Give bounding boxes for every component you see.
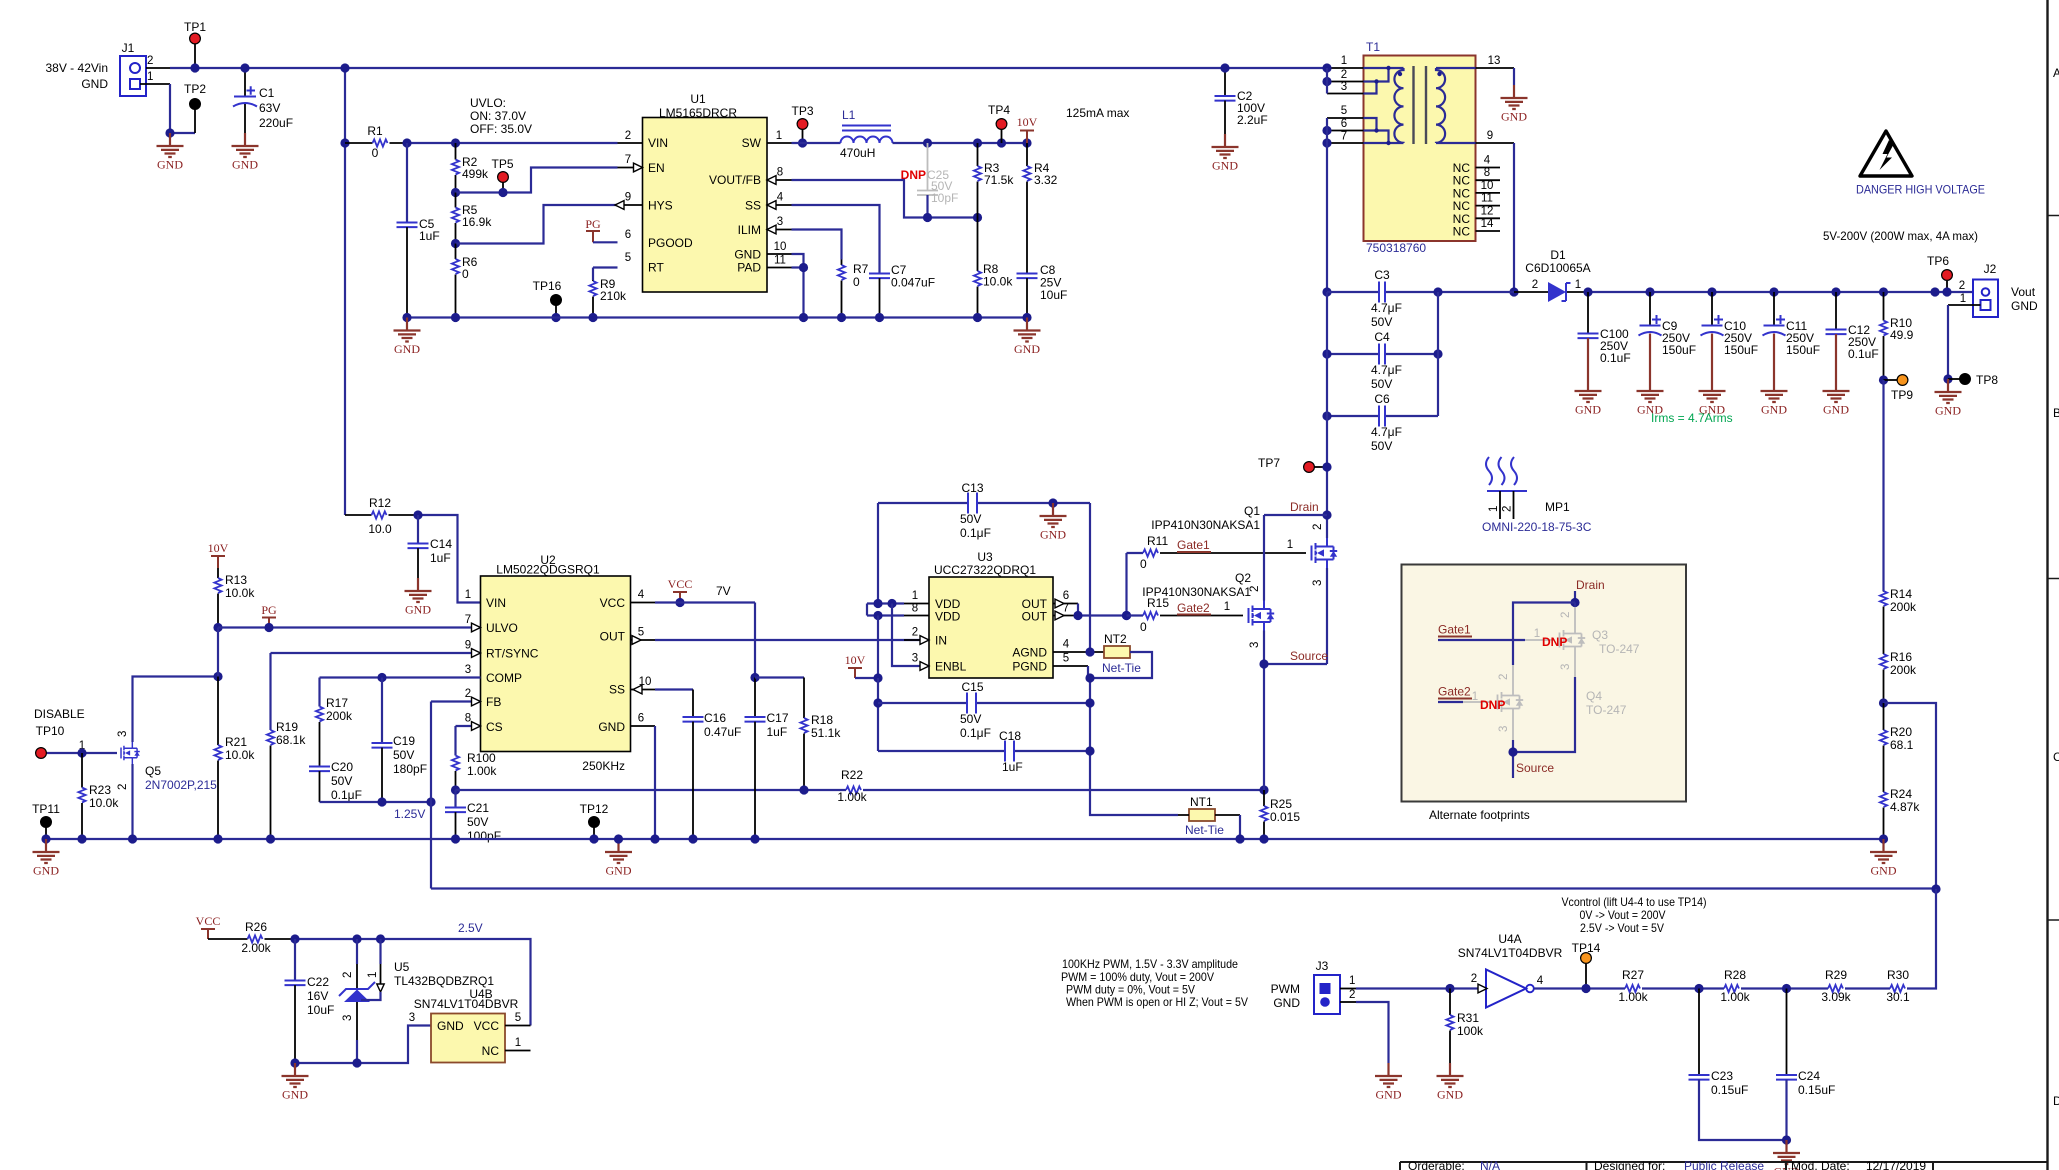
wire ENBL tie <box>892 604 929 667</box>
wire VDD left column <box>877 503 879 604</box>
resistor R9 <box>589 277 627 318</box>
svg-text:10.0k: 10.0k <box>89 796 119 810</box>
capacitor C20 <box>309 760 362 802</box>
svg-text:T1: T1 <box>1366 40 1380 54</box>
resistor R18 <box>755 678 841 791</box>
wire J2 pin1 gnd <box>1948 304 1981 306</box>
resistor R15 <box>1122 596 1243 634</box>
svg-text:R14: R14 <box>1890 587 1912 601</box>
svg-text:0.1μF: 0.1μF <box>960 726 991 740</box>
wire FB row <box>431 700 481 702</box>
svg-text:12: 12 <box>1481 205 1494 217</box>
svg-text:220uF: 220uF <box>259 116 293 130</box>
wire J1 pin2 to rail <box>146 67 170 69</box>
wire Q5 source <box>131 764 133 839</box>
ground C9 <box>1637 378 1664 417</box>
wire ULVO row <box>218 626 481 628</box>
wire FB sense to right column <box>1884 703 1937 889</box>
svg-text:TP10: TP10 <box>36 724 65 738</box>
svg-text:1: 1 <box>465 589 471 601</box>
svg-text:10V: 10V <box>845 653 866 667</box>
svg-text:2: 2 <box>1312 524 1324 530</box>
svg-text:0.1uF: 0.1uF <box>1848 347 1879 361</box>
wire 2.5V rail <box>295 939 531 1026</box>
svg-text:RT/SYNC: RT/SYNC <box>486 647 539 661</box>
svg-text:0: 0 <box>462 267 469 281</box>
svg-text:Irms = 4.7Arms: Irms = 4.7Arms <box>1651 411 1733 425</box>
svg-text:6: 6 <box>625 229 631 241</box>
svg-text:8: 8 <box>1484 167 1490 179</box>
transistor Q2 <box>1249 586 1275 648</box>
net-tie NT1 <box>1178 795 1245 844</box>
svg-text:1.00k: 1.00k <box>467 764 497 778</box>
svg-text:2: 2 <box>342 972 354 978</box>
svg-text:0.1uF: 0.1uF <box>1600 351 1631 365</box>
testpoint TP9 <box>1879 375 1913 402</box>
power port VCC at U2 <box>668 577 693 607</box>
svg-text:11: 11 <box>774 255 786 267</box>
svg-text:Drain: Drain <box>1290 500 1319 514</box>
ground C11 <box>1761 378 1788 417</box>
inductor L1 <box>840 108 893 160</box>
svg-text:GND: GND <box>1273 996 1300 1010</box>
node Drain alt <box>1570 578 1604 607</box>
node R24 gnd junction <box>1879 834 1888 843</box>
wire CS sense row <box>456 789 847 791</box>
node ULVO junction <box>213 623 222 632</box>
svg-text:150uF: 150uF <box>1724 343 1758 357</box>
node FB divider junction <box>1879 698 1888 707</box>
title block <box>1400 1159 2048 1170</box>
wire SS net <box>792 205 880 274</box>
svg-text:0: 0 <box>372 146 379 160</box>
svg-text:L1: L1 <box>842 108 856 122</box>
T1 primary internal wiring <box>1364 66 1404 94</box>
wire Q1 source / source row <box>1264 568 1327 664</box>
svg-text:TP12: TP12 <box>580 802 609 816</box>
svg-text:U3: U3 <box>977 550 993 564</box>
resistor R2 <box>452 143 489 193</box>
wire VDD tie <box>867 604 904 616</box>
ground C14 <box>405 578 432 617</box>
svg-text:50V: 50V <box>1371 377 1392 391</box>
svg-text:10uF: 10uF <box>1040 288 1067 302</box>
svg-text:0: 0 <box>1140 557 1147 571</box>
capacitor C11 <box>1763 287 1821 378</box>
svg-text:2.00k: 2.00k <box>241 941 271 955</box>
svg-text:2: 2 <box>1349 989 1355 1001</box>
svg-text:2.2uF: 2.2uF <box>1237 113 1268 127</box>
resistor R20 <box>1880 703 1914 792</box>
svg-text:OUT: OUT <box>600 630 626 644</box>
svg-text:ULVO: ULVO <box>486 621 518 635</box>
resistor R6 <box>452 244 478 318</box>
svg-text:5V-200V (200W max, 4A max): 5V-200V (200W max, 4A max) <box>1823 229 1978 243</box>
pin U2-6 GND <box>631 725 656 727</box>
svg-text:1.00k: 1.00k <box>1618 990 1648 1004</box>
ground R31 <box>1437 1063 1464 1102</box>
svg-text:IPP410N30NAKSA1: IPP410N30NAKSA1 <box>1142 585 1251 599</box>
svg-text:4.7μF: 4.7μF <box>1371 425 1402 439</box>
svg-text:Q4: Q4 <box>1586 689 1602 703</box>
ground J3 <box>1375 1063 1402 1102</box>
svg-text:Q5: Q5 <box>145 764 161 778</box>
svg-text:0.047uF: 0.047uF <box>891 276 935 290</box>
ground C22 <box>282 1063 309 1102</box>
svg-text:Designed for:: Designed for: <box>1594 1159 1665 1170</box>
svg-text:0.47uF: 0.47uF <box>704 725 741 739</box>
svg-text:DANGER HIGH VOLTAGE: DANGER HIGH VOLTAGE <box>1856 183 1985 197</box>
capacitor C6 <box>1371 392 1402 453</box>
svg-text:R18: R18 <box>811 713 833 727</box>
svg-text:38V - 42Vin: 38V - 42Vin <box>46 61 109 75</box>
svg-text:Gate2: Gate2 <box>1438 685 1471 699</box>
node vertical x345 rail to R12 <box>344 68 346 515</box>
svg-text:Public Release: Public Release <box>1684 1159 1764 1170</box>
svg-text:50V: 50V <box>393 748 414 762</box>
wire Q2 drain <box>1263 515 1265 601</box>
ground bus mid <box>605 839 632 878</box>
resistor R24 <box>1880 787 1920 839</box>
svg-text:RT: RT <box>648 261 664 275</box>
transistor Q3 DNP <box>1560 607 1640 670</box>
svg-text:1: 1 <box>1224 601 1230 613</box>
svg-text:Source: Source <box>1290 649 1328 663</box>
svg-text:C1: C1 <box>259 86 275 100</box>
svg-text:U4A: U4A <box>1498 932 1521 946</box>
svg-text:180pF: 180pF <box>393 762 427 776</box>
danger triangle <box>1856 131 1985 197</box>
svg-text:TL432BQDBZRQ1: TL432BQDBZRQ1 <box>394 974 494 988</box>
svg-text:R12: R12 <box>369 496 391 510</box>
resistor R29 <box>1821 968 1890 1004</box>
svg-text:100k: 100k <box>1457 1024 1484 1038</box>
ground J2 <box>1935 379 1962 418</box>
svg-text:200k: 200k <box>1890 663 1917 677</box>
svg-text:C14: C14 <box>430 537 452 551</box>
resistor R4 <box>1023 143 1057 274</box>
svg-text:R28: R28 <box>1724 968 1746 982</box>
svg-text:VCC: VCC <box>600 596 626 610</box>
svg-text:C: C <box>2053 750 2059 764</box>
svg-text:100KHz PWM, 1.5V - 3.3V amplit: 100KHz PWM, 1.5V - 3.3V amplitude <box>1062 957 1238 971</box>
svg-text:ON: 37.0V: ON: 37.0V <box>470 109 526 123</box>
pin U3-4 AGND <box>1053 652 1104 666</box>
svg-text:MP1: MP1 <box>1545 500 1570 514</box>
svg-text:C20: C20 <box>331 760 353 774</box>
net-tie NT2 <box>1102 632 1141 675</box>
svg-text:51.1k: 51.1k <box>811 726 841 740</box>
svg-text:R21: R21 <box>225 735 247 749</box>
svg-text:4: 4 <box>1537 975 1544 987</box>
resistor R7 <box>838 260 869 318</box>
svg-text:50V: 50V <box>960 712 981 726</box>
ground C100 <box>1575 378 1602 417</box>
svg-text:OFF: 35.0V: OFF: 35.0V <box>470 122 532 136</box>
svg-text:VIN: VIN <box>486 596 506 610</box>
svg-text:6: 6 <box>1341 118 1347 130</box>
testpoint TP2 <box>184 82 206 133</box>
svg-text:C22: C22 <box>307 975 329 989</box>
resistor R10 <box>1879 287 1914 380</box>
wire primary return column <box>1326 143 1328 292</box>
resistor R5 <box>452 193 492 244</box>
wire output rail <box>1588 291 1973 293</box>
svg-text:J2: J2 <box>1984 262 1997 276</box>
svg-text:SS: SS <box>609 683 625 697</box>
svg-text:C19: C19 <box>393 734 415 748</box>
pin U3-6 OUT <box>1053 603 1078 605</box>
svg-text:3: 3 <box>1498 726 1510 732</box>
svg-text:R24: R24 <box>1890 787 1912 801</box>
testpoint TP1 <box>184 20 206 73</box>
node C23 C24 gnd <box>1782 1135 1791 1144</box>
shunt reference U5 TL432 <box>339 939 494 1063</box>
svg-text:SN74LV1T04DBVR: SN74LV1T04DBVR <box>1458 946 1563 960</box>
wire U5 bottom rail <box>295 1026 431 1064</box>
svg-text:C24: C24 <box>1798 1069 1820 1083</box>
capacitor C14 <box>408 515 453 578</box>
power port VCC at R26 <box>196 914 221 939</box>
svg-text:2: 2 <box>1532 279 1538 291</box>
capacitor C2 <box>1215 63 1268 134</box>
wire Q4 source <box>1512 717 1514 740</box>
wire C6 row <box>1327 292 1438 416</box>
resistor R3 <box>974 143 1014 218</box>
wire Q1 drain <box>1326 515 1328 538</box>
svg-text:8: 8 <box>912 603 918 615</box>
wire GND PAD tie <box>792 254 804 318</box>
svg-text:C15: C15 <box>961 680 983 694</box>
resistor R26 <box>208 920 295 955</box>
svg-text:ILIM: ILIM <box>738 223 761 237</box>
svg-text:OMNI-220-18-75-3C: OMNI-220-18-75-3C <box>1482 520 1592 534</box>
svg-text:VIN: VIN <box>648 136 668 150</box>
svg-text:7: 7 <box>1063 603 1069 615</box>
svg-text:U5: U5 <box>394 960 410 974</box>
svg-text:N/A: N/A <box>1480 1159 1500 1170</box>
svg-text:NT1: NT1 <box>1190 795 1213 809</box>
svg-text:Alternate footprints: Alternate footprints <box>1429 808 1530 822</box>
svg-text:D: D <box>2053 1094 2059 1108</box>
svg-text:14: 14 <box>1481 218 1494 230</box>
wire SW out rail <box>893 142 1028 144</box>
svg-text:Gate1: Gate1 <box>1438 623 1471 637</box>
capacitor C21 <box>445 790 501 843</box>
svg-text:750318760: 750318760 <box>1366 241 1426 255</box>
svg-text:TO-247: TO-247 <box>1599 642 1640 656</box>
T1 secondary-low internal wiring <box>1364 118 1404 145</box>
testpoint TP7 <box>1258 456 1332 472</box>
node CS filter junction <box>451 785 460 794</box>
svg-text:2: 2 <box>1502 506 1514 512</box>
resistor R8 <box>974 218 1013 318</box>
pin U1-1 SW <box>767 142 792 144</box>
svg-text:C17: C17 <box>767 711 789 725</box>
svg-text:63V: 63V <box>259 101 280 115</box>
ground U1 bus <box>1014 318 1041 357</box>
capacitor C5 <box>397 143 440 318</box>
svg-text:4: 4 <box>1063 639 1070 651</box>
svg-text:When PWM is open or HI Z; Vout: When PWM is open or HI Z; Vout = 5V <box>1066 995 1248 1009</box>
svg-text:3: 3 <box>117 731 129 737</box>
svg-text:1: 1 <box>1287 539 1293 551</box>
svg-text:Q2: Q2 <box>1235 571 1251 585</box>
svg-text:B: B <box>2053 406 2059 420</box>
wire drain row <box>1264 514 1327 516</box>
svg-text:PAD: PAD <box>737 261 761 275</box>
svg-text:Vcontrol (lift U4-4 to use TP1: Vcontrol (lift U4-4 to use TP14) <box>1562 895 1707 909</box>
border right edge <box>2048 0 2059 1170</box>
junction pin1/TP2 <box>165 128 174 137</box>
resistor R13 <box>214 568 255 628</box>
svg-text:TP5: TP5 <box>491 157 513 171</box>
svg-text:C4: C4 <box>1374 330 1390 344</box>
svg-text:J3: J3 <box>1316 959 1329 973</box>
wire VDD rail C13 <box>878 502 1090 504</box>
ground R24 <box>1870 839 1897 878</box>
resistor R1 <box>345 124 407 160</box>
svg-text:R20: R20 <box>1890 725 1912 739</box>
svg-text:PG: PG <box>261 603 277 617</box>
testpoint TP8 <box>1948 373 1998 387</box>
wire Q2 source <box>1263 631 1265 791</box>
svg-text:3: 3 <box>912 653 918 665</box>
svg-text:4: 4 <box>777 192 784 204</box>
svg-text:10uF: 10uF <box>307 1003 334 1017</box>
transformer T1 <box>1364 40 1476 255</box>
svg-text:8: 8 <box>465 713 471 725</box>
testpoint TP6 <box>1927 254 1952 297</box>
capacitor C7 <box>869 263 935 318</box>
IC U1 LM5165DRCR <box>643 92 768 292</box>
svg-text:3.32: 3.32 <box>1034 173 1058 187</box>
svg-text:10.0: 10.0 <box>368 522 392 536</box>
svg-text:3: 3 <box>465 664 471 676</box>
ground C12 <box>1823 378 1850 417</box>
svg-text:7: 7 <box>465 614 471 626</box>
svg-text:R19: R19 <box>276 720 298 734</box>
wire VCC to C17 <box>754 603 756 678</box>
svg-text:8: 8 <box>777 167 783 179</box>
resistor R27 <box>1618 968 1724 1004</box>
text Q1 labels <box>1151 504 1260 532</box>
capacitor C23 <box>1689 989 1787 1141</box>
ground left bus <box>394 318 421 357</box>
testpoint TP4 <box>988 103 1010 143</box>
ground C1 <box>232 133 259 172</box>
resistor R14 <box>1880 587 1917 654</box>
svg-text:3: 3 <box>409 1012 415 1024</box>
pin U1-4 SS <box>767 204 792 206</box>
wire inverter out <box>1534 987 1625 989</box>
svg-text:NC: NC <box>1453 225 1471 239</box>
svg-text:210k: 210k <box>600 289 627 303</box>
testpoint TP3 <box>791 104 813 148</box>
svg-text:NC: NC <box>1453 199 1471 213</box>
svg-text:C23: C23 <box>1711 1069 1733 1083</box>
svg-text:1: 1 <box>147 71 153 83</box>
pin U1-7 EN <box>618 167 643 169</box>
svg-text:R17: R17 <box>326 696 348 710</box>
svg-text:R100: R100 <box>467 751 496 765</box>
wire PGND net <box>1088 652 1152 678</box>
wire C4 row <box>1327 353 1438 355</box>
svg-text:68.1: 68.1 <box>1890 738 1914 752</box>
svg-text:1.00k: 1.00k <box>1720 990 1750 1004</box>
transistor Q4 DNP <box>1498 665 1627 732</box>
wire COMP row <box>320 676 481 678</box>
ground T1 pin13 <box>1513 68 1515 85</box>
svg-text:R13: R13 <box>225 573 247 587</box>
svg-text:J1: J1 <box>122 41 135 55</box>
pin U1-3 ILIM <box>767 229 792 231</box>
svg-text:10: 10 <box>1481 180 1494 192</box>
svg-text:PGND: PGND <box>1012 660 1047 674</box>
svg-text:R22: R22 <box>841 768 863 782</box>
svg-text:C6D10065A: C6D10065A <box>1525 261 1590 275</box>
svg-text:13: 13 <box>1488 55 1501 67</box>
svg-text:NC: NC <box>1453 174 1471 188</box>
svg-text:R1: R1 <box>367 124 383 138</box>
node R2/R5 junction <box>451 188 460 197</box>
wire snubber row C3 <box>1327 291 1514 293</box>
pin U2-10 SS <box>631 689 656 691</box>
svg-text:ENBL: ENBL <box>935 660 967 674</box>
power port PG at U2 <box>261 603 277 632</box>
connector J2 <box>1959 262 2038 317</box>
pin U2-5 OUT <box>631 639 656 641</box>
svg-text:5: 5 <box>638 627 644 639</box>
capacitor C4 <box>1371 330 1402 391</box>
resistor R30 <box>1886 889 1936 1004</box>
svg-text:TP16: TP16 <box>533 279 562 293</box>
wire EN net <box>456 168 618 193</box>
svg-text:Q3: Q3 <box>1592 628 1608 642</box>
T1 secondary winding <box>1436 68 1476 143</box>
ground TP11 <box>33 839 60 878</box>
svg-text:TP3: TP3 <box>791 104 813 118</box>
wire Gate2 alt <box>1438 685 1505 713</box>
wire J1 pin1 to GND <box>140 83 170 85</box>
svg-text:1: 1 <box>912 590 918 602</box>
svg-text:VCC: VCC <box>196 914 221 928</box>
svg-text:C3: C3 <box>1374 268 1390 282</box>
svg-text:TP7: TP7 <box>1258 456 1280 470</box>
resistor R100 <box>452 751 497 790</box>
svg-text:470uH: 470uH <box>840 146 875 160</box>
svg-text:1uF: 1uF <box>1002 760 1023 774</box>
capacitor C13 <box>960 481 991 540</box>
pin U3-1 VDD <box>904 603 929 605</box>
svg-text:1.00k: 1.00k <box>837 790 867 804</box>
connector J3 <box>1271 959 1356 1014</box>
testpoint TP10 <box>36 724 87 758</box>
svg-text:GND: GND <box>81 77 108 91</box>
svg-text:Source: Source <box>1516 761 1554 775</box>
svg-text:DISABLE: DISABLE <box>34 707 85 721</box>
capacitor C17 <box>745 678 789 840</box>
svg-text:Net-Tie: Net-Tie <box>1185 823 1224 837</box>
capacitor C16 <box>683 711 742 839</box>
svg-text:10.0k: 10.0k <box>225 586 255 600</box>
transistor Q5 2N7002 <box>46 731 217 792</box>
svg-text:R27: R27 <box>1622 968 1644 982</box>
pin U3-8 VDD <box>904 615 929 617</box>
svg-text:2N7002P,215: 2N7002P,215 <box>145 778 217 792</box>
svg-text:10V: 10V <box>208 541 229 555</box>
svg-text:TP2: TP2 <box>184 82 206 96</box>
